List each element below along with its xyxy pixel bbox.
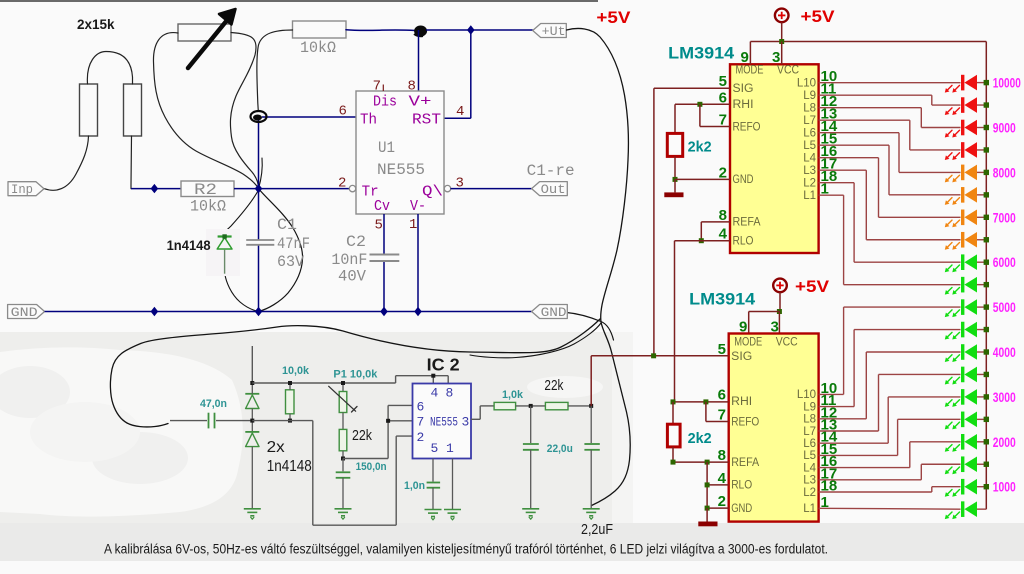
- svg-text:1,0n: 1,0n: [404, 480, 425, 492]
- svg-text:RLO: RLO: [731, 480, 752, 492]
- svg-text:C1: C1: [277, 216, 297, 234]
- svg-text:REFA: REFA: [731, 457, 759, 469]
- LED D13: [961, 344, 964, 360]
- svg-text:6: 6: [339, 104, 347, 120]
- wire pin1 V- down: [417, 214, 419, 312]
- LED D7: [961, 210, 964, 226]
- svg-text:L1: L1: [803, 190, 816, 202]
- svg-text:9000: 9000: [993, 121, 1016, 136]
- svg-text:2000: 2000: [993, 435, 1016, 450]
- wire chip1 L1 to LED10: [819, 194, 844, 196]
- svg-text:L5: L5: [803, 140, 816, 152]
- svg-text:3: 3: [772, 49, 780, 66]
- chip1 REFA/RLO wiring: [701, 221, 730, 223]
- wire chip1 L6 to LED5: [819, 132, 899, 134]
- rail node LED2: [984, 102, 989, 107]
- svg-text:1: 1: [409, 217, 417, 233]
- U1 pin stubs 7: [382, 85, 384, 92]
- svg-text:63V: 63V: [277, 253, 305, 271]
- svg-text:L7: L7: [803, 115, 816, 127]
- hand-drawn arrow over potentiometer: [188, 19, 228, 68]
- +5V supply symbol chip1: [775, 9, 789, 23]
- hand-drawn curve upper tail into R2 node: [259, 158, 263, 189]
- junction diamond at x470: [467, 25, 475, 34]
- ground below D2: [244, 508, 261, 510]
- svg-text:SIG: SIG: [731, 351, 752, 363]
- svg-text:L8: L8: [803, 414, 816, 426]
- junction node R2-right / C1: [255, 184, 263, 193]
- rail node LED17: [984, 439, 989, 444]
- svg-text:4: 4: [456, 104, 464, 120]
- rail node LED14: [984, 372, 989, 377]
- connector tag Inp: [8, 182, 44, 196]
- resistor 2k2 #1: [667, 133, 682, 156]
- svg-text:L2: L2: [803, 487, 816, 499]
- svg-text:22k: 22k: [544, 378, 564, 394]
- wire chip1 L10 to LED1: [819, 82, 961, 84]
- op-amp/timer U1 NE555 box: [356, 91, 444, 214]
- svg-text:VCC: VCC: [777, 65, 799, 77]
- LED D4: [961, 142, 964, 158]
- svg-text:1: 1: [446, 441, 454, 456]
- svg-text:+5V: +5V: [801, 7, 836, 26]
- wire cap to diode node: [216, 420, 252, 422]
- svg-text:10nF: 10nF: [331, 251, 367, 269]
- resistor 22k vertical: [339, 429, 347, 450]
- resistor 15k left: [80, 84, 98, 136]
- IC2 NE555 box: [413, 384, 472, 459]
- LED D10: [961, 277, 964, 293]
- svg-text:Th: Th: [360, 112, 377, 129]
- svg-text:7: 7: [373, 79, 381, 95]
- svg-text:Cv: Cv: [374, 198, 390, 215]
- LED D16: [961, 412, 964, 428]
- input wire to 47n cap: [170, 420, 207, 422]
- wire chip1 L7 to LED4: [819, 119, 910, 121]
- +5V power rail top: [750, 41, 986, 43]
- rail node LED9: [984, 260, 989, 265]
- hand-drawn curve bulging around C1 from R2 node to GND rail: [259, 189, 303, 312]
- svg-text:10000: 10000: [993, 76, 1021, 91]
- svg-text:RST: RST: [412, 112, 441, 129]
- wire chip1 L3 to LED8: [819, 169, 867, 171]
- LED D15: [961, 389, 964, 405]
- svg-text:C1-re: C1-re: [527, 162, 575, 180]
- rail node LED19: [984, 484, 989, 489]
- svg-text:5: 5: [375, 218, 383, 234]
- capacitor C2 plates: [370, 254, 400, 256]
- wire chip1 L4 to LED7: [819, 157, 879, 159]
- rail node LED8: [984, 237, 989, 242]
- chip1 SIG wire down to chip2 SIG net: [654, 87, 730, 89]
- svg-text:1000: 1000: [993, 480, 1016, 495]
- hand-drawn curve GND tag to loop: [567, 313, 614, 341]
- svg-text:8000: 8000: [993, 165, 1016, 180]
- LED anode rail: [985, 42, 987, 510]
- svg-text:SIG: SIG: [733, 83, 754, 95]
- svg-text:NE555: NE555: [377, 161, 425, 179]
- scribble blob at Th node: [251, 111, 267, 122]
- hand-drawn link diode bottom to GND rail: [225, 274, 259, 312]
- svg-text:NE555: NE555: [430, 415, 458, 430]
- resistor R2 box: [181, 181, 234, 197]
- rail node LED10: [984, 282, 989, 287]
- capacitor 22,0u: [530, 406, 532, 443]
- wire 15k right bottom down to R2 node: [130, 136, 133, 189]
- chip2 MODE/VCC wiring: [749, 311, 780, 313]
- pin2 open circle: [349, 185, 355, 191]
- svg-text:GND: GND: [541, 305, 567, 320]
- IC LM3914 #1 body: [730, 64, 819, 253]
- pin7 wire: [388, 420, 412, 422]
- svg-text:2x15k: 2x15k: [77, 17, 115, 32]
- LED D6: [961, 187, 964, 203]
- svg-text:L9: L9: [803, 401, 816, 413]
- svg-text:9: 9: [741, 49, 749, 66]
- LED D3: [961, 120, 964, 136]
- lower rail y420.6 to IC2 pin2: [252, 420, 312, 422]
- rail node LED15: [984, 394, 989, 399]
- capacitor C1 plates: [246, 239, 274, 241]
- svg-text:22k: 22k: [352, 428, 373, 444]
- svg-text:LM3914: LM3914: [668, 44, 735, 63]
- resistor 10k top: [293, 21, 347, 38]
- svg-text:3000: 3000: [993, 390, 1016, 405]
- svg-text:GND: GND: [11, 305, 38, 320]
- IC2 pin5 cap 1,0n: [432, 459, 434, 482]
- top rail y383: [252, 382, 395, 384]
- svg-text:3: 3: [462, 415, 470, 430]
- diode D2: [245, 431, 259, 433]
- svg-text:L10: L10: [797, 78, 816, 90]
- svg-text:LM3914: LM3914: [689, 290, 756, 309]
- svg-text:GND: GND: [731, 503, 752, 515]
- svg-text:10kΩ: 10kΩ: [300, 39, 336, 57]
- svg-text:L1: L1: [803, 503, 816, 515]
- svg-text:47nF: 47nF: [277, 235, 310, 253]
- svg-text:10,0k: 10,0k: [282, 365, 310, 377]
- svg-text:47,0n: 47,0n: [200, 398, 227, 410]
- svg-text:2k2: 2k2: [688, 430, 712, 447]
- rail node LED18: [984, 462, 989, 467]
- svg-text:A kalibrálása 6V-os, 50Hz-es v: A kalibrálása 6V-os, 50Hz-es váltó feszü…: [104, 542, 828, 557]
- IC2 pin3 wire: [471, 418, 480, 420]
- wire chip2 L1 to LED20: [819, 507, 961, 510]
- resistor 2k2 #2: [667, 424, 680, 447]
- wire 10k left end down to Th node (hand-drawn): [257, 30, 293, 111]
- svg-text:4000: 4000: [993, 345, 1016, 360]
- LED D17: [961, 434, 964, 450]
- wire chip1 L5 to LED6: [819, 144, 889, 146]
- gray schematic stub above diodes: [251, 346, 253, 383]
- svg-text:7000: 7000: [993, 210, 1016, 225]
- LED D18: [961, 456, 964, 472]
- hand-drawn lasso around bottom-left input (upper edge): [110, 319, 600, 427]
- svg-text:6: 6: [417, 400, 425, 415]
- GND rail left: [8, 305, 45, 319]
- rail node LED13: [984, 349, 989, 354]
- svg-text:9: 9: [739, 319, 747, 336]
- wire pin3 to Out: [451, 188, 532, 190]
- rail node LED11: [984, 304, 989, 309]
- LED D14: [961, 367, 964, 383]
- svg-text:1,0k: 1,0k: [502, 389, 524, 401]
- wire chip2 L4 to LED17: [819, 467, 910, 469]
- wire chip2 L10 to LED11: [819, 393, 844, 395]
- svg-text:R2: R2: [194, 181, 217, 199]
- wire chip2 L3 to LED18: [819, 479, 922, 481]
- wire Inp node to R2: [131, 188, 181, 190]
- svg-text:22,0u: 22,0u: [547, 443, 573, 455]
- wire 10k right to V+ node: [346, 29, 415, 32]
- IC2 pin1 to ground: [452, 459, 454, 510]
- capacitor 2,2uF: [590, 406, 592, 443]
- svg-text:L6: L6: [803, 128, 816, 140]
- svg-text:40V: 40V: [338, 268, 367, 286]
- svg-text:L3: L3: [803, 475, 816, 487]
- rail node LED16: [984, 417, 989, 422]
- wire R2 right to pin2 node: [234, 188, 349, 190]
- svg-text:L4: L4: [803, 462, 816, 474]
- Th wire: [262, 116, 356, 118]
- svg-text:RHI: RHI: [733, 99, 754, 111]
- svg-text:2k2: 2k2: [688, 139, 712, 156]
- svg-text:C2: C2: [346, 233, 366, 251]
- scribble blob at V+ node: [414, 26, 427, 37]
- wire chip1 L8 to LED3: [819, 107, 922, 109]
- svg-text:150,0n: 150,0n: [356, 461, 387, 473]
- wire pin5 Cv down: [383, 214, 385, 255]
- svg-text:REFO: REFO: [731, 416, 759, 428]
- LED D1: [961, 75, 964, 91]
- svg-text:7: 7: [417, 415, 425, 430]
- LED D2: [961, 97, 964, 113]
- svg-text:V+: V+: [409, 94, 432, 111]
- node dots on diode column: [250, 381, 254, 385]
- rail node LED1: [984, 80, 989, 85]
- svg-text:6: 6: [718, 386, 726, 403]
- wire chip2 L7 to LED14: [819, 430, 879, 432]
- svg-text:L9: L9: [803, 90, 816, 102]
- svg-text:2: 2: [417, 430, 425, 445]
- connector tag +Ut: [533, 24, 567, 38]
- wire pot right end down to R2 node (hand-drawn): [230, 33, 258, 189]
- wire chip2 L9 to LED12: [819, 406, 855, 408]
- svg-text:P1 10,0k: P1 10,0k: [333, 369, 378, 381]
- long wire RLO1 down to RHI2: [674, 241, 676, 402]
- LED D11: [961, 299, 964, 315]
- svg-text:2x: 2x: [267, 439, 285, 456]
- svg-text:6000: 6000: [993, 255, 1016, 270]
- chip1 GND wire: [675, 178, 730, 180]
- hand-drawn loop from +Ut down right side to 2.2uF ground: [567, 28, 631, 505]
- rail node LED7: [984, 215, 989, 220]
- wire Inp to 15k left bottom: [44, 136, 89, 190]
- svg-text:8: 8: [446, 386, 454, 401]
- svg-text:2,2uF: 2,2uF: [581, 522, 613, 538]
- hand-drawn lasso inner return line: [470, 323, 601, 358]
- chip1 RHI/REFO wiring: [675, 103, 730, 105]
- svg-text:GND: GND: [733, 174, 754, 186]
- svg-text:L4: L4: [803, 153, 816, 165]
- IC LM3914 #2 body: [729, 334, 819, 522]
- pin6 wire: [388, 404, 412, 406]
- IC2 top jog wire: [395, 376, 397, 383]
- diode D1 (to +): [245, 393, 259, 395]
- wire pin4 RST riser: [470, 30, 472, 118]
- wire 22k bottom to pins 6/7 riser: [343, 458, 388, 460]
- svg-text:L3: L3: [803, 165, 816, 177]
- svg-text:+5V: +5V: [596, 8, 631, 27]
- svg-text:3: 3: [771, 319, 779, 336]
- LED D20: [961, 501, 964, 517]
- svg-text:1n4148: 1n4148: [267, 458, 312, 475]
- resistor 22k horizontal: [545, 402, 568, 409]
- svg-text:VCC: VCC: [776, 337, 798, 349]
- svg-text:MODE: MODE: [734, 337, 762, 349]
- wire chip2 L2 to LED19: [819, 491, 932, 493]
- svg-text:Out: Out: [541, 182, 566, 197]
- svg-text:U1: U1: [378, 139, 395, 157]
- crop artifact line along top edge: [0, 0, 598, 2]
- wire P1 to 22k: [342, 413, 344, 430]
- ground bar chip2: [698, 522, 717, 527]
- svg-text:L6: L6: [803, 438, 816, 450]
- svg-text:Inp: Inp: [11, 182, 33, 197]
- wire arc joining 15k tops: [87, 52, 132, 85]
- svg-text:5: 5: [431, 441, 439, 456]
- rail node LED4: [984, 147, 989, 152]
- resistor 1,0k: [494, 402, 515, 409]
- LED D19: [961, 479, 964, 495]
- LED D8: [961, 232, 964, 248]
- resistor 15k right: [124, 84, 142, 136]
- connector tag GND right: [532, 305, 568, 319]
- rail node LED12: [984, 327, 989, 332]
- LED D5: [961, 165, 964, 181]
- wire chip2 L5 to LED16: [819, 454, 898, 456]
- svg-text:L5: L5: [803, 450, 816, 462]
- wire chip1 L2 to LED9: [819, 182, 855, 184]
- connector tag Out: [532, 182, 568, 196]
- wire pin8 V+ riser: [418, 30, 420, 91]
- chip2 RHI wiring: [673, 401, 729, 403]
- chip2 SIG net: [591, 355, 729, 357]
- svg-text:Dis: Dis: [373, 94, 397, 111]
- hand-drawn link node to diode top: [225, 190, 259, 232]
- wire V+ node to +Ut rail: [426, 29, 533, 31]
- svg-text:L8: L8: [803, 103, 816, 115]
- svg-text:RHI: RHI: [731, 396, 752, 408]
- LED D12: [961, 322, 964, 338]
- chip1 MODE/VCC stubs: [749, 42, 751, 65]
- rail node LED3: [984, 125, 989, 130]
- diode 1n4148 (top section): [206, 229, 240, 276]
- svg-text:5000: 5000: [993, 300, 1016, 315]
- svg-text:REFO: REFO: [733, 121, 761, 133]
- potentiometer body (trimmed resistor): [178, 24, 231, 41]
- svg-text:MODE: MODE: [736, 65, 764, 77]
- svg-text:+5V: +5V: [795, 277, 830, 296]
- svg-text:IC 2: IC 2: [427, 355, 460, 375]
- svg-text:REFA: REFA: [733, 217, 761, 229]
- capacitor 47,0n: [208, 413, 210, 429]
- wire chip1 L9 to LED2: [819, 94, 932, 96]
- wire chip2 L8 to LED13: [819, 418, 867, 420]
- svg-text:RLO: RLO: [733, 236, 754, 248]
- LED D9: [961, 254, 964, 270]
- svg-text:2: 2: [338, 176, 346, 192]
- rail node LED6: [984, 192, 989, 197]
- ground bar chip1: [664, 192, 683, 197]
- svg-text:V-: V-: [410, 198, 426, 215]
- wire chip2 L6 to LED15: [819, 442, 889, 444]
- svg-text:1n4148: 1n4148: [167, 237, 211, 253]
- capacitor 150,0n: [342, 459, 344, 472]
- resistor 10,0k vertical: [286, 390, 295, 414]
- vertical net wire x258 Th-C1-GND: [258, 117, 260, 240]
- svg-text:+Ut: +Ut: [542, 24, 566, 39]
- svg-text:L7: L7: [803, 426, 816, 438]
- svg-text:4: 4: [431, 386, 439, 401]
- rail node LED5: [984, 170, 989, 175]
- GND rail junctions: [151, 307, 159, 316]
- junction node left of R2: [151, 184, 159, 193]
- wire pot left end sweep down to R2 node (hand-drawn): [153, 33, 258, 189]
- svg-text:10kΩ: 10kΩ: [190, 198, 226, 216]
- +5V supply symbol chip2: [773, 279, 787, 293]
- svg-text:L2: L2: [803, 178, 816, 190]
- svg-text:8: 8: [408, 79, 416, 95]
- pin3 open circle: [444, 185, 450, 191]
- chip2 REFA/RLO/GND chain: [672, 447, 674, 462]
- wire 22k junction up to SIG line: [590, 356, 592, 406]
- svg-text:L10: L10: [797, 389, 816, 401]
